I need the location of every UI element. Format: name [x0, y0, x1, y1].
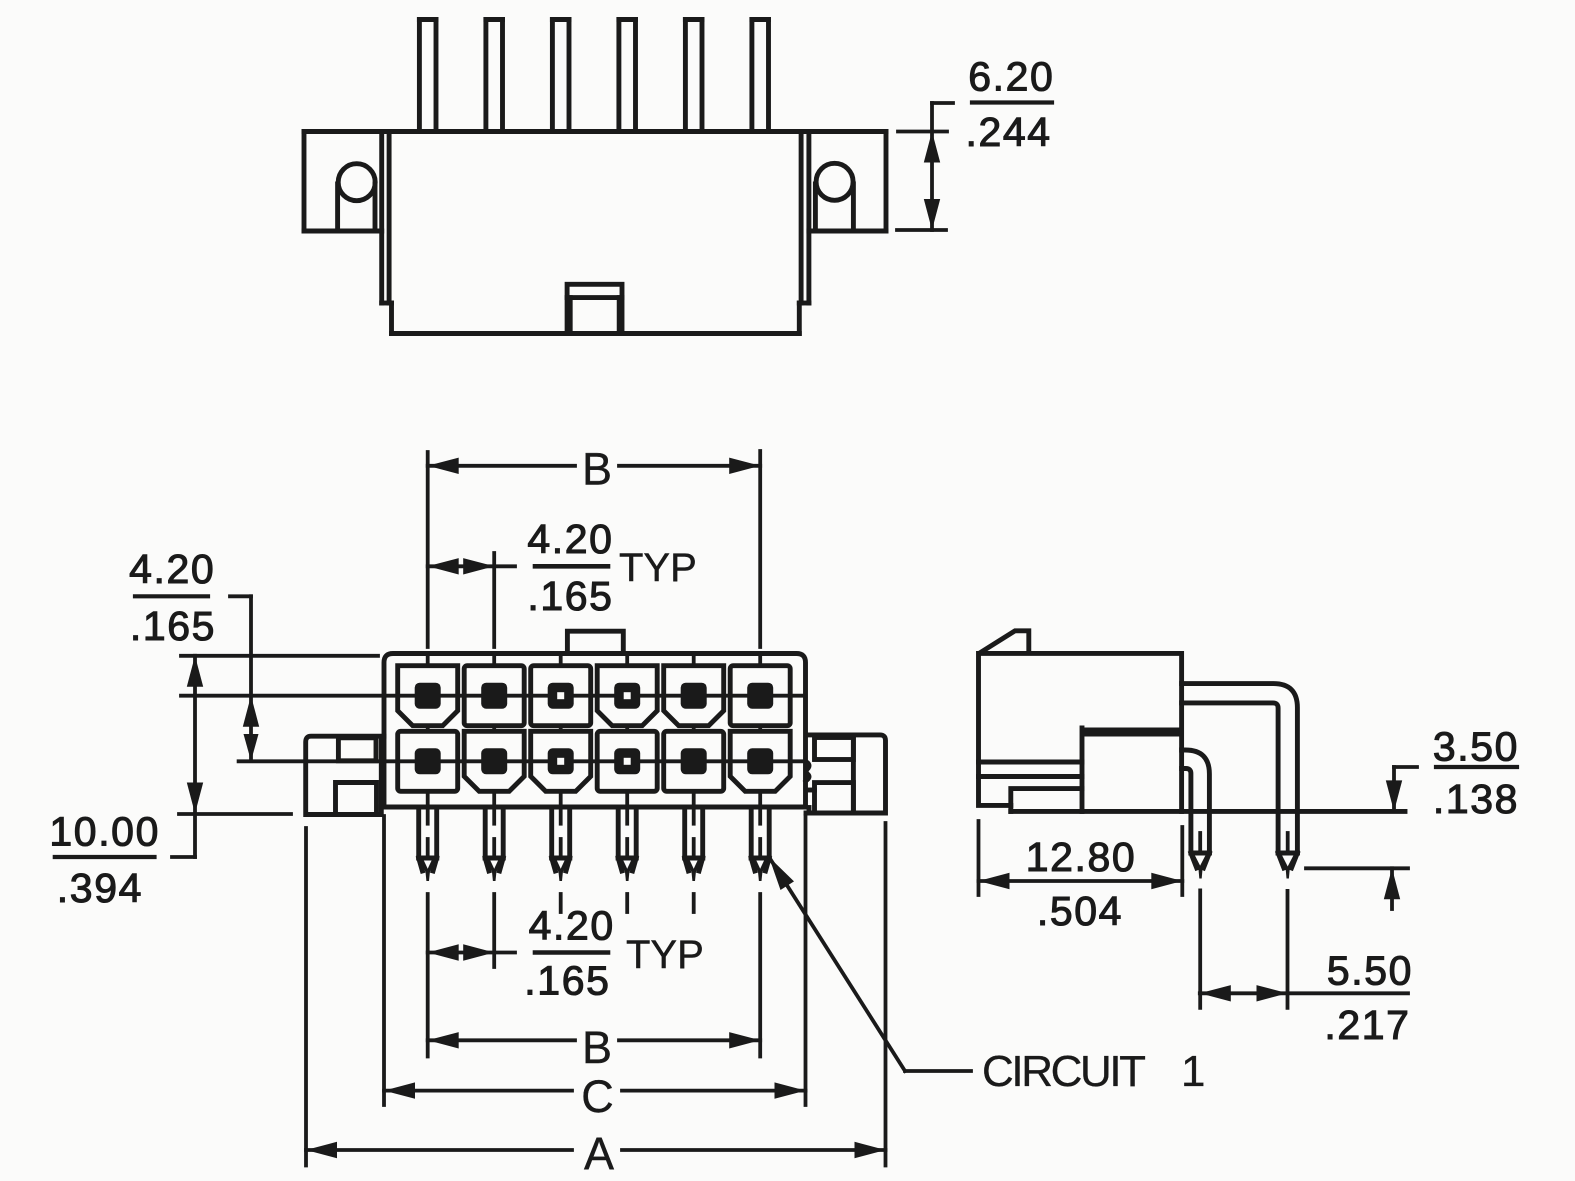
- svg-text:CIRCUIT: CIRCUIT: [982, 1047, 1145, 1096]
- side view bottom step block: [1011, 789, 1082, 812]
- cavity 4 row1: [597, 666, 657, 726]
- dimension 12.80/.504: [979, 821, 1183, 934]
- dimension C: [384, 1071, 806, 1122]
- body edge extension lines: [384, 816, 806, 1105]
- dimension 3.50/.138: [1384, 724, 1519, 910]
- cavity 3 row1: [531, 666, 591, 726]
- svg-text:B: B: [582, 444, 612, 495]
- cavity 8 row2: [464, 731, 524, 791]
- dimension 4.20 TYP bottom: [428, 903, 704, 1004]
- terminal pin holes: [557, 692, 631, 765]
- svg-text:.165: .165: [130, 603, 216, 649]
- svg-text:.504: .504: [1037, 888, 1123, 934]
- dimension 10.00/.394 left: [49, 656, 378, 911]
- top view pins 1-6: [419, 20, 768, 132]
- pin 1 extension line: [426, 894, 430, 1057]
- svg-text:4.20: 4.20: [527, 516, 613, 562]
- CIRCUIT 1 leader and label: [769, 857, 1205, 1096]
- svg-text:1: 1: [1181, 1047, 1205, 1096]
- side view rear block: [1082, 728, 1182, 812]
- dimension 4.20 TYP top: [428, 516, 697, 647]
- top view mounting flange bar: [304, 132, 886, 232]
- svg-text:B: B: [582, 1022, 612, 1073]
- svg-text:.165: .165: [524, 958, 610, 1004]
- svg-text:C: C: [581, 1071, 614, 1122]
- dimension 5.50/.217: [1200, 890, 1413, 1048]
- svg-text:5.50: 5.50: [1327, 948, 1413, 994]
- side view lower pin through-lines: [979, 762, 1083, 777]
- svg-text:.217: .217: [1324, 1002, 1410, 1048]
- svg-text:4.20: 4.20: [529, 903, 615, 949]
- cavity 10 row2: [597, 731, 657, 791]
- top view left ear hole circle: [338, 164, 376, 229]
- row 1 centerline: [181, 694, 806, 698]
- cavity 7 row2: [398, 731, 458, 791]
- svg-text:TYP: TYP: [619, 546, 697, 590]
- front view right mounting flange: [806, 735, 886, 813]
- pin 6 extension line: [758, 894, 762, 1057]
- column centerline stubs: [428, 654, 761, 808]
- front view polarization tab: [567, 631, 623, 653]
- front view solder pins 1-6: [419, 807, 770, 881]
- cavity 12 row2: [730, 731, 790, 791]
- terminal pins front view: [415, 683, 774, 775]
- side view latch: [980, 631, 1029, 653]
- side view rear pin: [1182, 684, 1298, 879]
- side view front pin: [1182, 750, 1210, 879]
- pin tip reference line: [1306, 866, 1408, 870]
- dimension 6.20/.244: [897, 53, 1054, 230]
- svg-text:6.20: 6.20: [968, 53, 1054, 99]
- pin 2 extension line: [492, 894, 496, 967]
- row 2 centerline: [239, 759, 806, 763]
- cavity 6 row1: [730, 666, 790, 726]
- svg-text:.244: .244: [965, 109, 1051, 155]
- pin centerline dashes: [561, 894, 694, 912]
- svg-text:4.20: 4.20: [129, 546, 215, 592]
- dimension B bottom: [428, 1022, 761, 1073]
- side view body outline: [979, 653, 1182, 811]
- svg-text:TYP: TYP: [626, 933, 704, 977]
- pcb reference line: [1011, 809, 1405, 814]
- dimension A: [306, 1128, 886, 1179]
- top view polarization rib: [567, 284, 622, 333]
- front view body outline: [381, 654, 805, 808]
- cavity 5 row1: [664, 666, 724, 726]
- flange edge extension lines: [306, 823, 886, 1166]
- dimension B top: [428, 444, 761, 648]
- top view body outline: [382, 132, 809, 334]
- svg-text:.138: .138: [1433, 776, 1519, 822]
- cavity 9 row2: [531, 731, 591, 791]
- front view left mounting flange: [306, 736, 384, 814]
- top view right ear hole circle: [815, 163, 853, 229]
- dimension 4.20/.165 left rows: [129, 546, 259, 761]
- svg-text:10.00: 10.00: [49, 809, 160, 855]
- svg-text:12.80: 12.80: [1026, 834, 1137, 880]
- cavity 1 row1: [398, 666, 458, 726]
- svg-text:.165: .165: [527, 573, 613, 619]
- cavity 2 row1: [464, 666, 524, 726]
- svg-text:3.50: 3.50: [1433, 724, 1519, 770]
- cavity 11 row2: [664, 731, 724, 791]
- svg-text:A: A: [584, 1128, 614, 1179]
- svg-text:.394: .394: [57, 865, 143, 911]
